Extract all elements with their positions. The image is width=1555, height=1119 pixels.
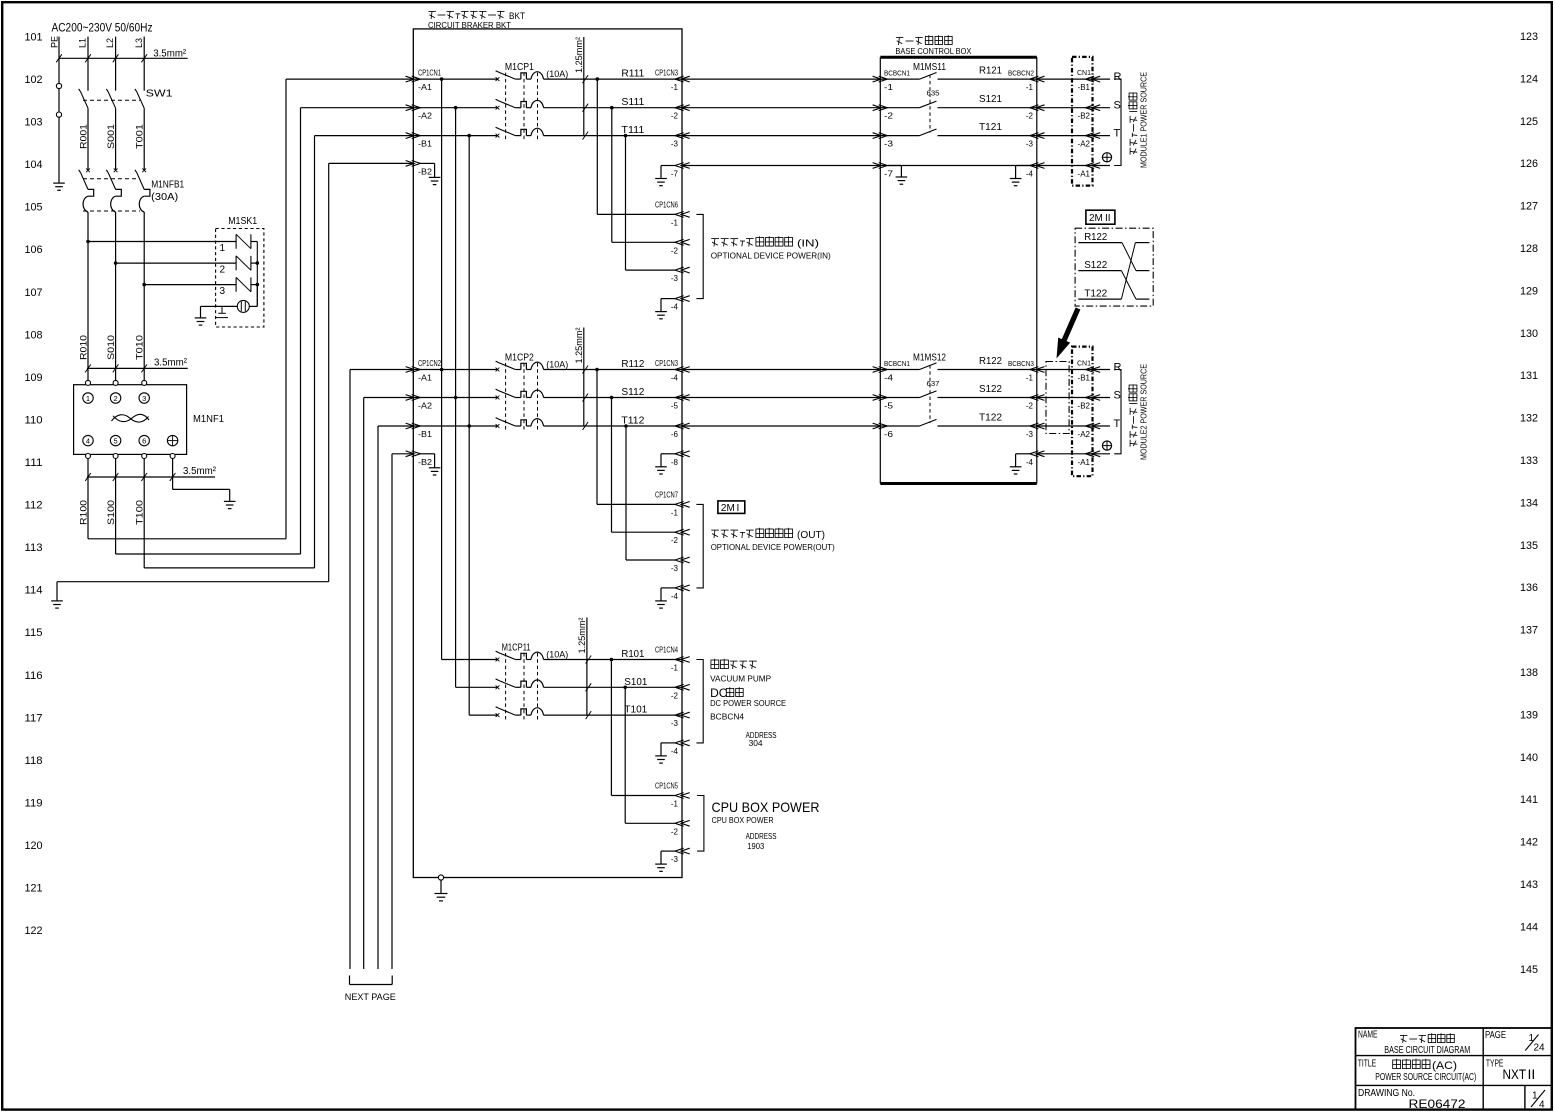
svg-text:-2: -2: [1026, 402, 1034, 411]
svg-text:RE06472: RE06472: [1409, 1099, 1466, 1111]
svg-text:II: II: [1105, 213, 1111, 224]
svg-text:-4: -4: [884, 374, 894, 383]
svg-text:3: 3: [142, 394, 146, 403]
svg-text:3.5mm²: 3.5mm²: [153, 48, 187, 59]
svg-text:R101: R101: [621, 648, 644, 660]
svg-text:105: 105: [25, 202, 43, 214]
svg-text:R010: R010: [79, 335, 89, 360]
svg-text:BCBCN2: BCBCN2: [1008, 69, 1034, 78]
svg-text:DC POWER SOURCE: DC POWER SOURCE: [710, 698, 786, 708]
svg-text:CN1: CN1: [1077, 68, 1091, 77]
svg-text:127: 127: [1520, 201, 1538, 213]
svg-text:117: 117: [25, 712, 43, 724]
svg-text:T122: T122: [1084, 287, 1107, 299]
svg-text:MODULE2 POWER SOURCE: MODULE2 POWER SOURCE: [1140, 364, 1149, 460]
svg-text:145: 145: [1520, 964, 1538, 976]
svg-text:128: 128: [1520, 243, 1538, 255]
svg-text:114: 114: [25, 585, 43, 597]
svg-text:CP1CN6: CP1CN6: [655, 201, 678, 210]
svg-text:R001: R001: [79, 124, 89, 149]
svg-text:118: 118: [25, 755, 43, 767]
svg-text:-A1: -A1: [1078, 170, 1091, 179]
svg-text:115: 115: [25, 627, 43, 639]
svg-text:S112: S112: [621, 386, 644, 398]
svg-text:134: 134: [1520, 497, 1538, 509]
svg-text:CN1: CN1: [1077, 359, 1091, 368]
svg-text:T001: T001: [135, 124, 145, 149]
svg-text:-3: -3: [671, 564, 679, 573]
svg-text:-3: -3: [884, 140, 894, 149]
svg-text:L3: L3: [134, 38, 144, 48]
svg-text:1.25mm²: 1.25mm²: [577, 618, 588, 654]
svg-text:NEXT PAGE: NEXT PAGE: [345, 992, 396, 1003]
svg-text:T: T: [1114, 418, 1121, 430]
svg-text:-B1: -B1: [1078, 83, 1091, 92]
svg-text:143: 143: [1520, 879, 1538, 891]
svg-text:2: 2: [114, 394, 118, 403]
svg-text:BCBCN3: BCBCN3: [1008, 359, 1034, 368]
svg-text:131: 131: [1520, 370, 1538, 382]
svg-text:(10A): (10A): [546, 649, 568, 659]
svg-text:4: 4: [86, 437, 90, 446]
svg-text:CPU BOX POWER: CPU BOX POWER: [712, 799, 820, 815]
svg-text:144: 144: [1520, 921, 1538, 933]
svg-text:BCBCN1: BCBCN1: [884, 359, 910, 368]
svg-text:-B1: -B1: [1078, 374, 1091, 383]
svg-text:132: 132: [1520, 413, 1538, 425]
svg-text:116: 116: [25, 670, 43, 682]
svg-text:141: 141: [1520, 794, 1538, 806]
svg-text:S010: S010: [106, 335, 116, 360]
svg-text:-A1: -A1: [1078, 458, 1091, 467]
svg-text:R: R: [1114, 71, 1122, 83]
svg-text:113: 113: [25, 542, 43, 554]
svg-text:AC200~230V 50/60Hz: AC200~230V 50/60Hz: [52, 23, 153, 35]
svg-text:1: 1: [86, 394, 90, 403]
svg-text:M1NF1: M1NF1: [193, 414, 224, 425]
svg-text:(30A): (30A): [151, 192, 178, 203]
svg-text:3.5mm²: 3.5mm²: [154, 358, 188, 369]
svg-text:-3: -3: [671, 719, 679, 728]
svg-text:BCBCN1: BCBCN1: [884, 69, 910, 78]
svg-text:S: S: [1114, 100, 1121, 112]
svg-text:R122: R122: [1084, 231, 1107, 243]
svg-text:CP1CN3: CP1CN3: [655, 69, 678, 78]
svg-text:-2: -2: [884, 112, 894, 121]
svg-text:-1: -1: [671, 83, 679, 92]
svg-text:CP1CN4: CP1CN4: [655, 646, 678, 655]
svg-text:S111: S111: [621, 96, 644, 108]
svg-text:BASE CONTROL BOX: BASE CONTROL BOX: [895, 46, 971, 56]
svg-text:T101: T101: [624, 704, 647, 716]
svg-text:T100: T100: [135, 500, 145, 525]
svg-text:1903: 1903: [747, 842, 765, 851]
svg-text:-A2: -A2: [1078, 140, 1091, 149]
svg-text:129: 129: [1520, 285, 1538, 297]
svg-text:126: 126: [1520, 158, 1538, 170]
svg-text:121: 121: [25, 883, 43, 895]
svg-text:-3: -3: [671, 140, 679, 149]
svg-text:-B2: -B2: [1078, 112, 1091, 121]
svg-text:304: 304: [749, 739, 764, 748]
svg-text:136: 136: [1520, 582, 1538, 594]
svg-text:2M: 2M: [721, 503, 735, 514]
svg-text:107: 107: [25, 287, 43, 299]
svg-text:(10A): (10A): [546, 69, 568, 79]
svg-text:-7: -7: [884, 170, 894, 179]
svg-text:PE: PE: [50, 36, 60, 48]
svg-text:CP1CN2: CP1CN2: [418, 359, 441, 368]
svg-text:122: 122: [25, 925, 43, 937]
svg-text:-4: -4: [1026, 458, 1034, 467]
svg-text:SW1: SW1: [146, 89, 174, 100]
svg-text:M1MS11: M1MS11: [913, 62, 946, 73]
svg-text:-1: -1: [671, 508, 679, 517]
svg-text:CIRCUIT BRAKER BKT: CIRCUIT BRAKER BKT: [428, 20, 511, 30]
svg-text:-1: -1: [884, 83, 894, 92]
svg-text:-3: -3: [1026, 430, 1034, 439]
svg-text:I: I: [737, 503, 740, 514]
svg-text:M1MS12: M1MS12: [913, 352, 946, 363]
svg-text:CPU BOX POWER: CPU BOX POWER: [712, 815, 774, 825]
svg-text:-1: -1: [1026, 83, 1034, 92]
svg-text:(AC): (AC): [1432, 1060, 1457, 1072]
svg-text:-4: -4: [671, 592, 679, 601]
svg-text:M1CP11: M1CP11: [502, 643, 531, 654]
svg-text:1.25mm²: 1.25mm²: [574, 37, 585, 73]
svg-text:L1: L1: [78, 38, 88, 48]
svg-text:(IN): (IN): [797, 239, 819, 250]
svg-text:MODULE1 POWER SOURCE: MODULE1 POWER SOURCE: [1140, 72, 1149, 168]
svg-text:138: 138: [1520, 667, 1538, 679]
svg-text:PAGE: PAGE: [1485, 1030, 1506, 1041]
svg-text:123: 123: [1520, 31, 1538, 43]
svg-text:S100: S100: [106, 500, 116, 525]
svg-text:635: 635: [927, 89, 940, 98]
svg-text:-4: -4: [671, 303, 679, 312]
svg-text:108: 108: [25, 329, 43, 341]
svg-text:-B2: -B2: [418, 458, 433, 467]
svg-text:110: 110: [25, 414, 43, 426]
svg-text:-3: -3: [1026, 140, 1034, 149]
svg-text:T: T: [1114, 128, 1121, 140]
svg-text:140: 140: [1520, 752, 1538, 764]
svg-text:-1: -1: [1026, 374, 1034, 383]
svg-text:-5: -5: [671, 402, 679, 411]
svg-text:S: S: [1114, 390, 1121, 402]
svg-text:-5: -5: [884, 402, 894, 411]
svg-text:POWER SOURCE CIRCUIT(AC): POWER SOURCE CIRCUIT(AC): [1375, 1072, 1476, 1083]
svg-text:-2: -2: [671, 246, 679, 255]
svg-text:-4: -4: [671, 374, 679, 383]
svg-text:-A2: -A2: [1078, 430, 1091, 439]
svg-text:-A2: -A2: [418, 402, 433, 411]
svg-text:-8: -8: [671, 458, 679, 467]
svg-text:R122: R122: [979, 355, 1002, 367]
svg-text:-1: -1: [671, 800, 679, 809]
svg-text:111: 111: [25, 457, 43, 469]
svg-text:-A2: -A2: [418, 112, 433, 121]
svg-text:-B1: -B1: [418, 430, 433, 439]
svg-text:VACUUM PUMP: VACUUM PUMP: [710, 673, 771, 683]
svg-text:24: 24: [1534, 1043, 1546, 1054]
svg-text:-6: -6: [884, 430, 894, 439]
svg-text:-7: -7: [671, 170, 679, 179]
svg-text:S122: S122: [1084, 259, 1107, 271]
svg-text:-2: -2: [671, 691, 679, 700]
svg-text:106: 106: [25, 244, 43, 256]
svg-text:-B1: -B1: [418, 140, 433, 149]
svg-text:CP1CN7: CP1CN7: [655, 491, 678, 500]
svg-text:-1: -1: [671, 218, 679, 227]
svg-text:S122: S122: [979, 383, 1002, 395]
svg-text:125: 125: [1520, 116, 1538, 128]
svg-text:TYPE: TYPE: [1486, 1059, 1504, 1070]
svg-text:TITLE: TITLE: [1358, 1059, 1377, 1070]
svg-text:R111: R111: [621, 68, 644, 80]
svg-text:OPTIONAL DEVICE POWER(IN): OPTIONAL DEVICE POWER(IN): [711, 251, 831, 261]
svg-text:S001: S001: [106, 124, 116, 149]
svg-text:T010: T010: [135, 335, 145, 360]
svg-text:T122: T122: [979, 412, 1002, 424]
svg-text:NAME: NAME: [1358, 1030, 1378, 1041]
svg-text:135: 135: [1520, 540, 1538, 552]
svg-text:R121: R121: [979, 65, 1002, 77]
svg-text:-4: -4: [1026, 170, 1034, 179]
svg-text:3: 3: [220, 286, 226, 297]
svg-text:139: 139: [1520, 709, 1538, 721]
svg-text:109: 109: [25, 372, 43, 384]
svg-text:ADDRESS: ADDRESS: [746, 832, 777, 841]
svg-text:137: 137: [1520, 625, 1538, 637]
svg-text:2: 2: [220, 265, 226, 276]
svg-text:-3: -3: [671, 274, 679, 283]
svg-text:637: 637: [927, 379, 940, 388]
svg-text:S121: S121: [979, 93, 1002, 105]
svg-text:-6: -6: [671, 430, 679, 439]
svg-text:-B2: -B2: [418, 167, 433, 176]
svg-text:1: 1: [220, 243, 226, 254]
svg-text:101: 101: [25, 32, 43, 44]
svg-text:DRAWING No.: DRAWING No.: [1358, 1088, 1415, 1099]
svg-text:R100: R100: [79, 500, 89, 525]
svg-text:CP1CN3: CP1CN3: [655, 359, 678, 368]
svg-text:120: 120: [25, 840, 43, 852]
svg-text:1.25mm²: 1.25mm²: [574, 328, 585, 364]
svg-text:-2: -2: [1026, 112, 1034, 121]
svg-text:4: 4: [1539, 1100, 1545, 1111]
svg-text:-2: -2: [671, 112, 679, 121]
svg-text:L2: L2: [105, 38, 115, 48]
svg-text:BCBCN4: BCBCN4: [710, 712, 744, 722]
svg-text:T121: T121: [979, 121, 1002, 133]
svg-text:103: 103: [25, 117, 43, 129]
svg-text:NXT: NXT: [1503, 1066, 1527, 1082]
svg-text:OPTIONAL DEVICE POWER(OUT): OPTIONAL DEVICE POWER(OUT): [711, 542, 835, 552]
svg-text:CP1CN1: CP1CN1: [418, 69, 441, 78]
svg-text:102: 102: [25, 74, 43, 86]
svg-text:M1CP2: M1CP2: [505, 353, 534, 364]
svg-text:R112: R112: [621, 358, 644, 370]
svg-text:-3: -3: [671, 855, 679, 864]
svg-text:-2: -2: [671, 536, 679, 545]
svg-text:II: II: [1528, 1066, 1536, 1082]
svg-text:S101: S101: [624, 676, 647, 688]
svg-text:112: 112: [25, 500, 43, 512]
svg-text:124: 124: [1520, 73, 1538, 85]
svg-text:-1: -1: [671, 664, 679, 673]
svg-text:-4: -4: [671, 747, 679, 756]
svg-text:6: 6: [142, 437, 146, 446]
svg-text:M1SK1: M1SK1: [228, 216, 257, 227]
svg-text:(10A): (10A): [546, 359, 568, 369]
svg-text:-B2: -B2: [1078, 402, 1091, 411]
svg-text:104: 104: [25, 159, 43, 171]
svg-text:5: 5: [114, 437, 118, 446]
svg-text:-A1: -A1: [418, 374, 433, 383]
svg-text:2M: 2M: [1089, 213, 1103, 224]
svg-text:3.5mm²: 3.5mm²: [183, 466, 217, 477]
svg-text:M1CP1: M1CP1: [505, 62, 534, 73]
svg-text:CP1CN5: CP1CN5: [655, 782, 678, 791]
svg-text:-A1: -A1: [418, 83, 433, 92]
svg-text:BKT: BKT: [509, 11, 525, 22]
svg-text:133: 133: [1520, 455, 1538, 467]
svg-text:(OUT): (OUT): [797, 530, 825, 541]
svg-text:BASE CIRCUIT DIAGRAM: BASE CIRCUIT DIAGRAM: [1384, 1045, 1470, 1056]
svg-text:119: 119: [25, 797, 43, 809]
svg-text:M1NFB1: M1NFB1: [151, 180, 184, 191]
svg-text:142: 142: [1520, 837, 1538, 849]
svg-text:R: R: [1114, 362, 1122, 374]
svg-text:-2: -2: [671, 827, 679, 836]
svg-text:130: 130: [1520, 328, 1538, 340]
